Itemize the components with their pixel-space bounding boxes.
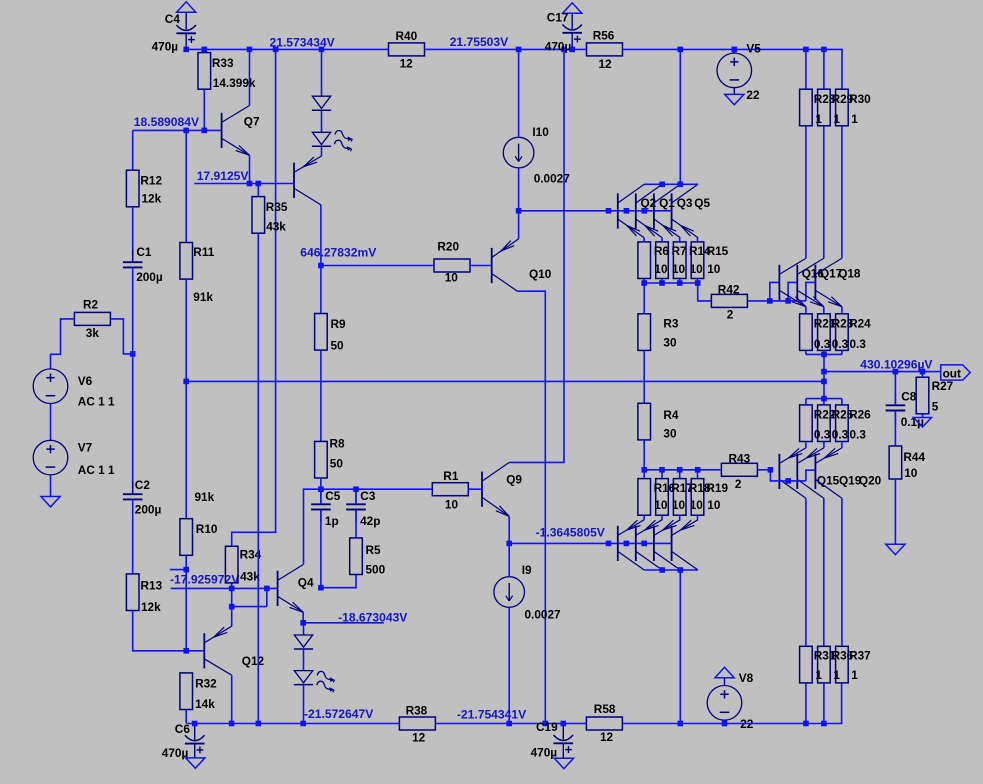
junction Q7 emitter: [247, 181, 253, 187]
label R26: [849, 408, 871, 422]
wire jog up Q18: [806, 282, 816, 301]
value 22 of V5: [746, 88, 760, 102]
node 18.589084V label: [134, 115, 199, 129]
resistor R17: [656, 470, 669, 520]
junction C4 rail: [183, 47, 189, 53]
svg-text:C8: C8: [901, 389, 917, 403]
svg-text:0.3: 0.3: [850, 337, 867, 351]
svg-text:I9: I9: [522, 563, 532, 577]
svg-text:12: 12: [400, 57, 414, 71]
svg-text:0.3: 0.3: [814, 428, 831, 442]
junction base jog 2: [785, 298, 791, 304]
resistor R38: [399, 717, 435, 730]
value 12k of R12: [142, 192, 162, 206]
svg-text:R38: R38: [406, 703, 428, 717]
junction R34 bottom: [229, 586, 235, 592]
junction bus570 2: [678, 567, 684, 573]
wire Q17 emitter stub: [823, 307, 825, 314]
svg-text:R33: R33: [212, 56, 234, 70]
node -17.925972V label: [170, 572, 239, 586]
svg-text:1: 1: [851, 668, 858, 682]
wire R42 to Q16 bases: [747, 300, 806, 302]
junction feedback: [821, 379, 827, 385]
svg-text:Q18: Q18: [838, 266, 861, 280]
svg-text:0.0027: 0.0027: [525, 607, 562, 621]
svg-text:200µ: 200µ: [136, 270, 163, 284]
label R4: [663, 408, 679, 422]
label R10: [196, 522, 218, 536]
label I10: [532, 125, 549, 139]
label I9: [522, 563, 532, 577]
value 200µ of C2: [135, 503, 162, 517]
node 17.9125V label: [197, 169, 249, 183]
value 50 of R9: [331, 338, 345, 352]
svg-text:R9: R9: [331, 317, 347, 331]
node 21.75503V label: [450, 35, 509, 49]
wire Q10 emitter up: [518, 211, 520, 239]
value AC 1 1 of V6: [78, 395, 115, 409]
label C2: [135, 478, 151, 492]
value 12k of R13: [141, 600, 161, 614]
current source I9: [494, 543, 525, 723]
transistor Q19: [797, 448, 824, 498]
label R38: [406, 703, 428, 717]
transistor Q18: [815, 258, 842, 307]
transistor Q7: [222, 106, 250, 156]
value 470µ of C17: [545, 40, 572, 54]
label R31: [814, 649, 836, 663]
label Q15: [817, 474, 840, 488]
svg-text:V7: V7: [78, 441, 93, 455]
resistor R1: [432, 483, 468, 496]
value 470µ of C19: [531, 746, 558, 760]
label R18: [689, 481, 711, 495]
wire Q4 collector up: [304, 489, 321, 564]
wire R2 left to V6: [51, 319, 75, 369]
wire R1 to Q9 base: [468, 488, 482, 490]
value 10 of R6: [654, 262, 668, 276]
out port flag: [941, 365, 971, 380]
label R6: [654, 244, 670, 258]
junction at R10 bottom: [183, 648, 189, 654]
svg-text:R24: R24: [849, 317, 871, 331]
resistor R28: [800, 49, 813, 125]
label C17: [547, 11, 569, 25]
svg-text:R30: R30: [849, 92, 871, 106]
wire out node: [824, 371, 941, 373]
svg-text:AC 1 1: AC 1 1: [78, 395, 115, 409]
junction tail Q1: [624, 208, 630, 214]
resistor R7: [656, 238, 669, 283]
svg-text:R44: R44: [903, 450, 925, 464]
label V5: [746, 41, 761, 55]
wire bottom quad collector bus: [644, 569, 698, 571]
wire Q16 emitter stub: [805, 307, 807, 314]
value 10 of R1: [445, 498, 459, 512]
svg-text:R3: R3: [663, 317, 679, 331]
svg-text:12k: 12k: [142, 192, 162, 206]
junction Q4 base: [264, 586, 270, 592]
label Q18: [838, 266, 861, 280]
node -21.572647V label: [304, 707, 373, 721]
value 50 of R8: [330, 456, 344, 470]
label Q2: [641, 196, 657, 210]
junction on R10 wire: [183, 567, 189, 573]
wire Q20 collector down: [841, 498, 843, 646]
wire R2 right to C-column: [110, 319, 132, 354]
wire bottom -rail segment left: [187, 723, 399, 725]
label R19: [706, 481, 728, 495]
svg-text:C17: C17: [547, 11, 569, 25]
wire top +rail segment right with corner to R30: [622, 49, 842, 89]
label R44: [903, 450, 925, 464]
junction base jog bottom: [785, 478, 791, 484]
svg-text:C2: C2: [135, 478, 151, 492]
junction R33 rail: [202, 47, 208, 53]
label R2: [83, 298, 99, 312]
junction bus283 4: [695, 280, 701, 286]
junction R28 rail: [803, 47, 809, 53]
svg-text:470µ: 470µ: [162, 746, 189, 760]
svg-text:R20: R20: [437, 240, 459, 254]
svg-text:Q12: Q12: [242, 654, 265, 668]
resistor R36: [818, 646, 831, 723]
junction C6: [192, 721, 198, 727]
wire net 17.9125V: [194, 183, 294, 185]
transistor Q4: [278, 564, 304, 612]
wire LED to bias transistor: [321, 146, 323, 156]
bias transistor (spreader): [294, 156, 322, 205]
junction I10 top: [516, 47, 522, 53]
svg-text:R40: R40: [396, 29, 418, 43]
svg-text:1: 1: [851, 112, 858, 126]
value 43k of R35: [266, 220, 286, 234]
wire V7 to ground: [50, 475, 52, 497]
svg-text:Q5: Q5: [694, 196, 710, 210]
resistor R14: [673, 238, 686, 283]
wire R20 to Q10 base: [470, 265, 492, 267]
junction Q9 rail: [561, 47, 567, 53]
wire R34 link down: [231, 583, 233, 626]
label R17: [671, 481, 693, 495]
wire bias collector down: [320, 205, 322, 266]
wire rail to top LED: [321, 49, 323, 96]
svg-text:Q7: Q7: [244, 115, 260, 129]
value AC 1 1 of V7: [78, 463, 115, 477]
light arrows lower: [317, 671, 335, 692]
resistor R21: [800, 314, 813, 355]
resistor R30: [836, 89, 849, 126]
capacitor C5: [311, 489, 331, 588]
junction quad rail: [678, 47, 684, 53]
value 1 of R29: [833, 112, 840, 126]
resistor R3: [638, 283, 651, 403]
value 500: [366, 562, 386, 576]
ground at C4 (pointing up): [177, 2, 196, 30]
label C3: [360, 489, 376, 503]
svg-text:out: out: [943, 367, 961, 381]
resistor R20: [434, 259, 470, 272]
junction bus283 2: [659, 280, 665, 286]
ground at R44: [886, 544, 905, 554]
wire R9 to R8: [320, 350, 322, 441]
label R29: [832, 92, 854, 106]
node 430.10296µV label: [860, 357, 932, 371]
svg-text:R56: R56: [593, 28, 615, 42]
junction with R2: [130, 351, 136, 357]
junction C8 top: [893, 369, 899, 375]
ground at V8 (pointing up): [715, 667, 734, 677]
wire R13 to Q12 base: [133, 611, 205, 651]
wire output stack: [823, 354, 825, 398]
junction C3 top: [353, 486, 359, 492]
label R28: [814, 92, 836, 106]
junction tail2 3: [641, 541, 647, 547]
value 10 of R18: [690, 498, 704, 512]
wire net -18.673043V: [303, 622, 384, 624]
junction C5 top: [318, 486, 324, 492]
wire LED chain to rail: [303, 685, 305, 724]
resistor R56: [587, 43, 623, 56]
ground at R27: [914, 418, 932, 428]
svg-text:21.75503V: 21.75503V: [450, 35, 509, 49]
value 3k: [86, 326, 100, 340]
svg-text:R27: R27: [932, 379, 954, 393]
value 10 of R14: [690, 262, 704, 276]
svg-text:12: 12: [600, 730, 614, 744]
value 0.3 of R26: [850, 428, 867, 442]
label out: [943, 367, 961, 381]
value 0.3 of R22: [814, 428, 831, 442]
resistor R29: [818, 49, 831, 125]
junction -18.673043V: [300, 620, 306, 626]
svg-text:91k: 91k: [193, 290, 213, 304]
value 10 of R19: [707, 498, 721, 512]
wire R5 bottom to C5 node: [321, 575, 356, 588]
node -18.673043V label: [338, 610, 407, 624]
svg-text:12: 12: [599, 57, 613, 71]
wire Q17 collector up: [823, 126, 825, 258]
wire quad bus to bottom rail: [679, 570, 681, 724]
label R5: [366, 543, 382, 557]
wire net -1.3645805V: [509, 542, 671, 544]
svg-text:2: 2: [735, 477, 742, 491]
svg-text:C3: C3: [360, 489, 376, 503]
junction R9 top: [318, 263, 324, 269]
label R11: [193, 245, 214, 259]
svg-text:10: 10: [445, 498, 459, 512]
wire R43 to bases: [757, 469, 770, 471]
capacitor C6: [185, 724, 205, 758]
wire jog up Q16: [770, 282, 780, 301]
value 5 of R27: [932, 399, 939, 413]
svg-text:R2: R2: [83, 298, 99, 312]
svg-text:91k: 91k: [195, 490, 215, 504]
svg-text:500: 500: [366, 562, 386, 576]
resistor R2: [74, 312, 110, 325]
svg-text:10: 10: [707, 262, 721, 276]
wire tail node: [519, 210, 672, 212]
wire R32 bottom: [185, 710, 187, 724]
value 1 of R37: [851, 668, 858, 682]
transistor bottom quad 1: [618, 520, 644, 570]
value 30 of R3: [663, 336, 677, 350]
svg-text:0.3: 0.3: [832, 428, 849, 442]
label R27: [932, 379, 954, 393]
svg-text:Q10: Q10: [529, 267, 552, 281]
label R21: [814, 317, 836, 331]
svg-text:470µ: 470µ: [545, 40, 572, 54]
label Q10: [529, 267, 552, 281]
diode D lower 1: [294, 635, 313, 649]
resistor R25: [818, 399, 831, 448]
svg-text:R26: R26: [849, 408, 871, 422]
label R36: [832, 649, 854, 663]
label Q4: [298, 575, 314, 589]
value 10 of R7: [672, 262, 686, 276]
label C5: [325, 489, 341, 503]
value 0.3 of R24: [850, 337, 867, 351]
svg-text:AC 1 1: AC 1 1: [78, 463, 115, 477]
svg-text:Q9: Q9: [506, 473, 522, 487]
value 12 of R56: [599, 57, 613, 71]
resistor R43: [721, 463, 757, 476]
junction R35 top: [256, 181, 262, 187]
svg-text:0.3: 0.3: [814, 337, 831, 351]
junction R31 rail: [803, 721, 809, 727]
label R34: [240, 548, 262, 562]
svg-text:Q20: Q20: [859, 474, 882, 488]
svg-text:1: 1: [815, 112, 822, 126]
transistor bottom quad 3: [654, 520, 680, 570]
resistor R32: [180, 673, 193, 710]
transistor Q10: [492, 239, 519, 291]
wire R35 bottom long: [257, 233, 259, 723]
voltage source V6: [33, 369, 68, 404]
ground at V7: [41, 497, 60, 507]
resistor R24: [836, 314, 849, 355]
svg-text:C19: C19: [536, 720, 558, 734]
value 22 of V8: [740, 717, 754, 731]
svg-text:R43: R43: [729, 451, 751, 465]
junction V8: [722, 721, 728, 727]
label Q1: [659, 196, 675, 210]
wire Q18 collector up: [841, 126, 843, 258]
net stub -17.925972V upper: [170, 569, 186, 571]
wire C1 to C2: [132, 268, 134, 494]
capacitor C2: [123, 481, 143, 512]
label R3: [663, 317, 679, 331]
svg-text:R32: R32: [195, 677, 217, 691]
wire R22 bus top: [806, 398, 842, 400]
junction bus470 3: [677, 467, 683, 473]
label V7: [78, 441, 93, 455]
svg-text:21.573434V: 21.573434V: [270, 36, 335, 50]
label C19: [536, 720, 558, 734]
current source I10: [503, 49, 534, 210]
transistor Q20: [815, 448, 842, 498]
label C4: [165, 12, 181, 26]
transistor Q5: [672, 184, 698, 238]
label R9: [331, 317, 347, 331]
wire Q18 emitter stub: [841, 307, 843, 314]
value 1 of R28: [815, 112, 822, 126]
resistor R10: [180, 519, 193, 556]
svg-text:50: 50: [331, 338, 345, 352]
capacitor C4: [176, 25, 196, 49]
junction R36 rail: [821, 721, 827, 727]
ground at V5: [725, 94, 744, 104]
svg-text:R8: R8: [330, 436, 346, 450]
svg-text:I10: I10: [532, 125, 549, 139]
junction I9 top: [506, 541, 512, 547]
junction I9 rail: [506, 721, 512, 727]
wire loop horizontal: [232, 606, 267, 608]
wire Q12 collector to rail: [231, 675, 233, 723]
svg-text:42p: 42p: [360, 514, 380, 528]
wire jog down Q15: [770, 470, 806, 481]
svg-text:470µ: 470µ: [531, 746, 558, 760]
wire loop vertical: [266, 588, 268, 606]
value 200µ of C1: [136, 270, 163, 284]
label Q17: [820, 266, 843, 280]
svg-text:5: 5: [932, 399, 939, 413]
value 0.3 of R23: [832, 337, 849, 351]
label C8: [901, 389, 917, 403]
svg-text:Q15: Q15: [817, 474, 840, 488]
value 0.3 of R21: [814, 337, 831, 351]
resistor R22: [800, 399, 813, 448]
svg-text:2: 2: [727, 308, 734, 322]
wire 646mV node: [321, 265, 434, 267]
svg-text:C1: C1: [136, 245, 152, 259]
wire node y489: [321, 488, 432, 490]
resistor R26: [836, 399, 849, 448]
wire base node 18.589084V: [133, 129, 222, 131]
svg-text:R35: R35: [266, 200, 288, 214]
svg-text:V6: V6: [78, 374, 93, 388]
label R56: [593, 28, 615, 42]
label R37: [849, 649, 871, 663]
svg-text:1: 1: [815, 668, 822, 682]
voltage source V5: [717, 49, 752, 94]
wire R12 top: [132, 130, 134, 170]
label Q12: [242, 654, 265, 668]
junction Q10 rail: [543, 721, 549, 727]
junction feedback rail: [183, 379, 189, 385]
svg-text:22: 22: [746, 88, 760, 102]
label R32: [195, 677, 217, 691]
transistor Q12: [204, 626, 231, 675]
resistor R16: [638, 470, 651, 520]
junction Q12 rail: [229, 721, 235, 727]
svg-text:-21.572647V: -21.572647V: [304, 707, 373, 721]
resistor R44: [889, 446, 902, 479]
svg-text:-21.754341V: -21.754341V: [457, 708, 526, 722]
transistor Q3: [654, 184, 680, 238]
svg-text:R10: R10: [196, 522, 218, 536]
junction at R11 top: [183, 128, 189, 134]
wire R8 bottom: [320, 478, 322, 489]
svg-text:646.27832mV: 646.27832mV: [300, 245, 376, 259]
svg-text:1: 1: [833, 668, 840, 682]
node 646.27832mV label: [300, 245, 376, 259]
transistor Q1: [636, 184, 662, 238]
value 1p: [325, 514, 339, 528]
label Q20: [859, 474, 882, 488]
junction C19: [561, 721, 567, 727]
junction bus283 1: [641, 280, 647, 286]
